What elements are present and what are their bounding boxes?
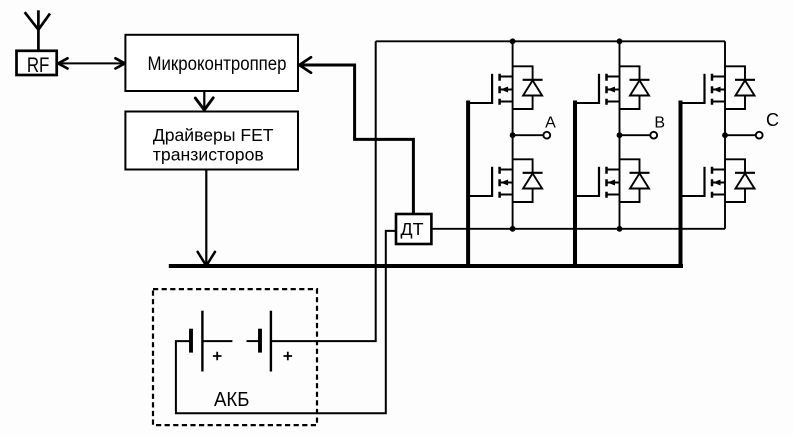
svg-text:RF: RF (27, 54, 50, 77)
svg-text:C: C (766, 110, 779, 130)
svg-text:транзисторов: транзисторов (153, 145, 264, 165)
svg-text:Микроконтроппер: Микроконтроппер (148, 54, 287, 75)
svg-text:АКБ: АКБ (214, 388, 250, 411)
svg-text:A: A (545, 115, 556, 132)
svg-text:Драйверы FET: Драйверы FET (153, 125, 274, 145)
svg-text:B: B (654, 115, 665, 132)
svg-text:ДТ: ДТ (401, 219, 424, 239)
